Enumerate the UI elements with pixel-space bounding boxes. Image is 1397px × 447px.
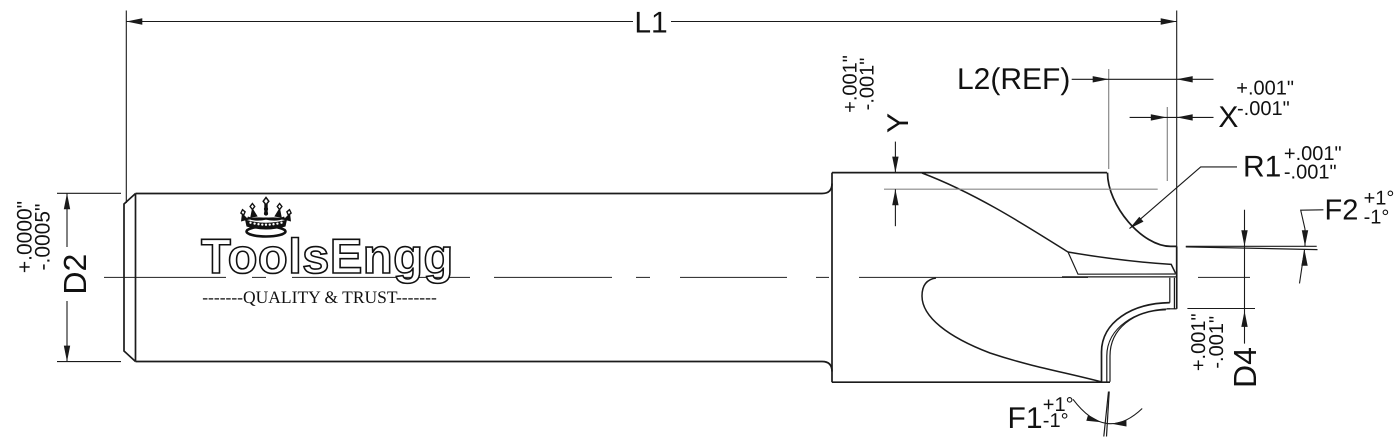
svg-text:X: X <box>1218 101 1238 134</box>
svg-text:D2: D2 <box>57 254 93 295</box>
svg-text:D4: D4 <box>1227 347 1263 388</box>
X left arrowhead <box>1151 114 1167 120</box>
leader R1 line <box>1130 167 1238 229</box>
Y lower arrowhead <box>892 189 898 205</box>
svg-text:-.001": -.001" <box>1206 316 1228 369</box>
L2 left arrowhead <box>1093 76 1109 82</box>
svg-text:L2(REF): L2(REF) <box>957 63 1070 96</box>
svg-text:-.001": -.001" <box>1284 162 1337 184</box>
F2 lower arrowhead <box>1301 250 1307 266</box>
dimension X extension line <box>1166 107 1168 181</box>
pilot end face <box>1176 246 1178 308</box>
L1 right arrowhead <box>1161 18 1177 24</box>
dimension L1 line <box>126 21 1176 23</box>
svg-text:ToolsEngg: ToolsEngg <box>201 230 454 284</box>
upper flute sweep curve <box>922 173 1068 252</box>
upper tooth face top edge <box>1068 252 1176 274</box>
R1 corner radius profile curve <box>1108 173 1177 247</box>
svg-text:-.001": -.001" <box>857 58 879 111</box>
svg-text:-.0005": -.0005" <box>32 204 55 271</box>
svg-text:-.001": -.001" <box>1237 98 1290 120</box>
F2 end face angle lines <box>1186 246 1318 249</box>
Y upper arrowhead <box>892 157 898 173</box>
upper tooth bottom land line <box>1062 276 1177 278</box>
cutter head left edge <box>831 173 833 383</box>
upper tooth face lower edge <box>1068 252 1176 274</box>
svg-text:Y: Y <box>882 113 915 133</box>
F2 upper arrowhead <box>1302 230 1308 246</box>
dimension L1 extension lines <box>126 11 1176 248</box>
dimension Y reference line <box>884 188 1158 190</box>
dimension F1 arc line <box>1073 399 1142 423</box>
shank top edge with neck fillet <box>136 184 833 194</box>
pilot margin line and mid corner arc <box>1107 278 1177 382</box>
dimension L2 line <box>1072 78 1214 80</box>
dimension D4 line <box>1244 210 1246 344</box>
svg-text:-1°: -1° <box>1043 410 1069 432</box>
crown logo <box>241 198 291 237</box>
shank chamfered left end <box>124 194 136 362</box>
cutter head top edge <box>832 172 1107 174</box>
D4 upper arrowhead <box>1241 230 1247 246</box>
svg-text:F1: F1 <box>1008 402 1043 435</box>
dimension D2 extension lines <box>57 193 121 361</box>
L2 right arrowhead <box>1177 76 1193 82</box>
R1 leader arrowhead <box>1130 217 1144 229</box>
svg-text:R1: R1 <box>1243 150 1281 183</box>
X right arrowhead <box>1177 114 1193 120</box>
shank bottom edge with neck fillet <box>136 362 833 372</box>
D4 lower arrowhead <box>1241 311 1247 327</box>
svg-text:-------QUALITY & TRUST-------: -------QUALITY & TRUST------- <box>202 287 437 307</box>
svg-text:+.001": +.001" <box>1236 78 1294 100</box>
dimension Y line <box>894 142 896 227</box>
cutter head bottom edge <box>832 381 1110 383</box>
dimension F2 leader and arrow lines <box>1300 210 1324 284</box>
L1 left arrowhead <box>126 18 142 24</box>
D2 top arrowhead <box>64 193 70 209</box>
pilot inner edge line and inner corner arc <box>1110 278 1170 382</box>
dimension D2 line <box>66 193 68 361</box>
dimension L2 extension line <box>1108 69 1110 169</box>
lower flute sweep curve with nose <box>922 278 1101 382</box>
dimension X line <box>1130 116 1214 118</box>
svg-text:L1: L1 <box>634 7 667 40</box>
lower corner radius outer arc <box>1102 303 1170 382</box>
D2 bottom arrowhead <box>64 346 70 362</box>
F1 left arrowhead <box>1086 415 1101 422</box>
F1 right arrowhead <box>1112 420 1127 426</box>
F1 side relief angle lines <box>1104 392 1109 437</box>
svg-text:F2: F2 <box>1325 194 1359 226</box>
svg-text:-1°: -1° <box>1364 207 1390 229</box>
centerline (dash-dot axis of tool) <box>104 276 1250 278</box>
dimension D4 extension line <box>1187 308 1255 310</box>
